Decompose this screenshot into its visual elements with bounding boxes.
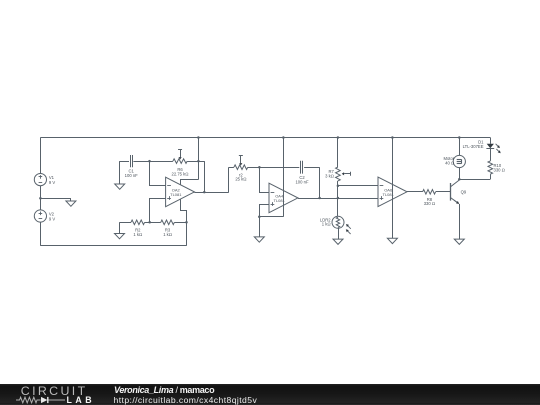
LED D1 LTL-307EE [487,144,494,149]
wire rail to motor [459,138,461,156]
svg-text:1 kΩ: 1 kΩ [133,232,142,237]
op-amp OA4 TL081 [269,183,298,213]
wire R7 node down [337,186,339,198]
node C1 / R6 / OA2 inverting input [148,160,151,163]
wire rail down to OA2 V+ jog [198,138,200,180]
node OA2 output / feedback [203,191,206,194]
resistor R2 1 k [120,222,132,224]
wire R7 node to OA6 inverting input [338,185,378,187]
potentiometer r2 25 k [229,167,234,169]
wire OA4 power drop from rail [283,138,285,217]
ground below LDR2 [338,228,340,239]
node mid supply junction [39,197,42,200]
ground below Q9 [454,239,464,244]
node OA4 out / LDR top [337,197,340,200]
wire OA6 V+ / V- power drop from rail to ground [392,138,394,239]
node OA4 plus junction [258,215,261,218]
resistor R10 330 [488,161,493,174]
node R3 right / bottom rail / OA2 V- [185,221,188,224]
op-amp OA6 TL081 [378,177,407,207]
wire OA4 inverting input [260,168,269,193]
svg-text:100 nF: 100 nF [125,173,138,178]
wire junction to ground stub [40,198,71,200]
svg-text:TL081: TL081 [170,192,182,197]
resistor R3 1 k [161,220,175,225]
svg-text:Q9: Q9 [461,189,467,194]
wire OA6 output [407,191,423,193]
svg-text:3 kΩ: 3 kΩ [325,173,334,178]
potentiometer R6 22.75 k [150,161,173,163]
svg-text:22.75 kΩ: 22.75 kΩ [172,171,189,176]
wire OA2 inverting input [150,162,166,186]
node on top rail above motor [458,136,461,139]
ground below OA6 [387,238,397,243]
node on top rail above R7 [337,136,340,139]
svg-text:330 Ω: 330 Ω [494,168,505,173]
potentiometer R7 3 k [337,138,339,168]
wire rail to D1 [490,138,492,144]
svg-text:LTL-307EE: LTL-307EE [463,144,484,149]
wire OA2 output up to r2 [228,167,230,192]
voltage source V2 [34,210,46,222]
wire motor to collector node [459,168,461,180]
svg-text:330 Ω: 330 Ω [424,201,435,206]
svg-text:9 V: 9 V [49,217,55,222]
svg-text:1 kΩ: 1 kΩ [163,232,172,237]
node on top rail above OA2 [197,136,200,139]
wire OA4 output [298,198,338,200]
node collector / motor / R10 [458,178,461,181]
wire V2 to bottom rail [40,222,42,246]
node OA4 output / C2 feedback [318,197,321,200]
wire C2 down to OA4 output [319,167,321,198]
wire top supply rail [40,137,490,139]
wire OA2 output [194,192,228,194]
voltage source V1 [34,174,46,186]
svg-text:9 V: 9 V [49,180,55,185]
node R7 bottom / OA6 inverting tap [337,185,340,188]
wire Q9 emitter to ground [459,204,461,239]
motor M1 40 Ohm [453,155,465,167]
node R2 / R3 / OA2 plus [148,221,151,224]
ground below R2 [119,222,121,233]
node R6 right / supply tap [197,160,200,163]
wire V1 to mid junction [40,186,42,210]
wire OA2 V+ jog [181,180,199,185]
wire bottom rail [40,245,186,247]
ground below C1 [119,161,121,184]
wire OA2 V- jog to R3 node [181,200,187,223]
svg-text:25 kΩ: 25 kΩ [235,177,246,182]
logo resistor-diode glyph [16,396,68,404]
node on top rail above OA6 [391,136,394,139]
node on top rail above OA4 [282,136,285,139]
ground below OA4 plus [259,217,261,237]
node r2 / C2 / OA4 inverting [258,166,261,169]
resistor R8 330 [423,190,436,195]
svg-text:1 kΩ: 1 kΩ [322,222,331,227]
wire node to OA6 non-inverting input [338,198,378,200]
wire D1 to R10 [490,149,492,161]
photoresistor LDR2 1 k [332,216,344,228]
capacitor C2 [259,167,299,169]
svg-text:100 nF: 100 nF [295,180,308,185]
wire R6 feedback down to output [204,161,206,192]
capacitor C1 [120,161,129,163]
wire down to LDR2 [337,198,339,216]
op-amp OA2 TL081 [166,177,195,207]
wire collector node to R10 branch [459,179,490,181]
ground supply midpoint [70,198,72,201]
svg-text:40 Ω: 40 Ω [445,161,454,166]
transistor Q9 NPN [450,183,452,201]
wire OA4 non-inverting input [260,205,269,217]
wire bottom rail up to R3 node [186,222,188,246]
wire left rail to V1 [40,138,42,174]
wire OA2 non-inverting input [150,199,166,223]
